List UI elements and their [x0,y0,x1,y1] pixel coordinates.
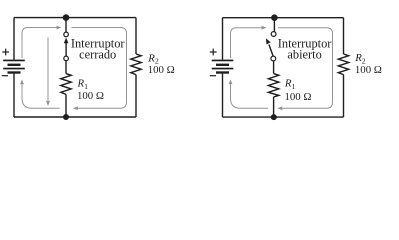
wire from R1 to bottom node (right circuit) [273,97,275,117]
svg-text:cerrado: cerrado [79,48,116,62]
switch S1 closed: upper contact [64,32,69,37]
wire bottom (right circuit) [223,116,344,118]
resistor R1 (left circuit) [61,74,71,95]
wire bottom (left circuit) [14,116,136,118]
current arrow battery-to-switch (right circuit) [231,26,267,58]
wire left above battery (right circuit) [222,18,224,60]
wire left below battery (left circuit) [13,74,15,117]
current return arrow to battery (right circuit) [229,79,268,108]
wire from switch to R1 (right circuit) [273,61,275,74]
wire from switch to R1 (left circuit) [65,61,67,74]
current path through R2 (left circuit) [72,28,127,111]
node B bottom junction dot (right circuit) [271,114,277,120]
switch S2 open: tilted blade with arrowhead [266,38,273,56]
wire top (left circuit) [14,17,136,19]
resistor R2 (left circuit) [131,54,141,75]
resistor R2 (right circuit) [338,54,348,75]
switch S1 closed: lower contact [64,56,69,61]
switch S2 open: upper contact [271,32,276,37]
resistor R1 (right circuit) [268,74,278,97]
wire right below R2 (right circuit) [343,75,345,118]
wire top (right circuit) [223,17,344,19]
battery plus label (right) [210,49,217,56]
current return arrow to battery (left circuit) [20,79,60,108]
wire right above R2 (left circuit) [135,18,137,54]
battery minus label (left) [2,75,8,77]
battery VS (left circuit) [3,60,25,74]
current path through R2 (right circuit) [277,28,332,111]
battery minus label (right) [210,75,216,77]
wire left above battery (left circuit) [13,18,15,60]
switch S1 closed: blade with arrowhead [64,38,69,57]
node A top junction dot (left circuit) [63,14,70,21]
node A top junction dot (right circuit) [271,14,278,21]
svg-text:100 Ω: 100 Ω [355,64,382,76]
wire from R1 to bottom node (left circuit) [65,94,67,117]
svg-text:100 Ω: 100 Ω [77,90,104,102]
svg-text:100 Ω: 100 Ω [148,64,175,76]
wire right below R2 (left circuit) [135,75,137,117]
wire from top node to switch (left circuit) [65,18,67,32]
svg-text:100 Ω: 100 Ω [285,91,312,103]
svg-text:abierto: abierto [287,48,321,62]
wire from top node to switch (right circuit) [273,18,275,32]
battery VS (right circuit) [212,60,234,74]
wire right above R2 (right circuit) [343,18,345,54]
current arrow down switch branch (left circuit) [46,38,50,107]
wire left below battery (right circuit) [222,74,224,118]
switch S2 open: lower contact [271,56,276,61]
node B bottom junction dot (left circuit) [63,114,69,120]
battery plus label (left) [2,49,9,56]
current arrow battery-to-switch (left circuit) [22,26,62,58]
